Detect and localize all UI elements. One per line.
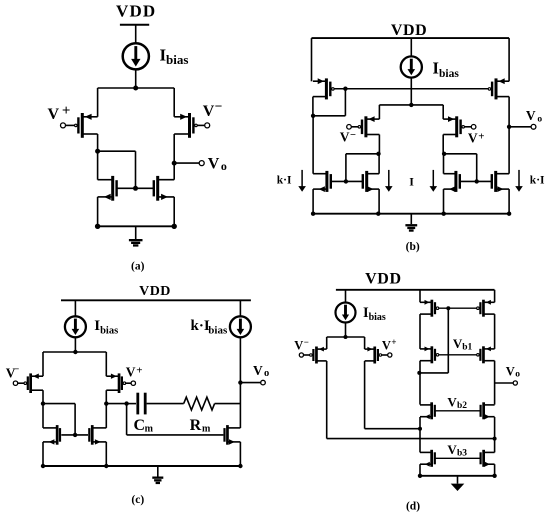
svg-text:V: V <box>468 130 478 145</box>
svg-text:(d): (d) <box>406 501 420 513</box>
svg-text:bias: bias <box>100 325 118 336</box>
svg-text:−: − <box>215 99 223 114</box>
svg-text:−: − <box>14 365 19 375</box>
svg-text:V: V <box>447 442 457 457</box>
svg-text:I: I <box>433 59 439 78</box>
svg-text:+: + <box>478 131 484 143</box>
svg-text:b3: b3 <box>457 449 467 459</box>
svg-text:I: I <box>409 174 414 188</box>
svg-text:b1: b1 <box>462 343 472 353</box>
svg-text:k·I: k·I <box>277 175 292 187</box>
svg-text:bias: bias <box>166 52 188 67</box>
svg-text:VDD: VDD <box>116 2 156 21</box>
svg-text:V: V <box>294 339 303 353</box>
svg-text:k·I: k·I <box>191 318 210 334</box>
svg-text:o: o <box>515 370 520 380</box>
svg-text:(b): (b) <box>406 241 420 253</box>
svg-text:+: + <box>391 337 396 347</box>
svg-text:V: V <box>447 394 457 409</box>
svg-text:bias: bias <box>439 68 459 80</box>
svg-text:VDD: VDD <box>365 271 401 288</box>
svg-text:(c): (c) <box>131 494 144 506</box>
svg-text:V: V <box>203 103 215 120</box>
svg-text:m: m <box>145 423 154 434</box>
svg-text:k·I: k·I <box>530 175 545 187</box>
svg-text:b2: b2 <box>457 401 467 411</box>
svg-text:o: o <box>537 114 542 124</box>
svg-text:V: V <box>382 338 391 352</box>
svg-text:V: V <box>208 156 220 173</box>
svg-text:V: V <box>340 129 350 144</box>
svg-text:VDD: VDD <box>139 284 171 299</box>
svg-text:−: − <box>304 337 309 347</box>
svg-text:+: + <box>136 365 142 377</box>
svg-text:V: V <box>126 365 136 380</box>
svg-text:(a): (a) <box>131 261 145 273</box>
svg-text:V: V <box>526 108 536 123</box>
svg-text:o: o <box>264 368 269 379</box>
svg-text:m: m <box>202 423 211 434</box>
svg-text:bias: bias <box>369 312 386 323</box>
svg-text:+: + <box>62 103 71 119</box>
svg-text:V: V <box>48 106 60 123</box>
svg-text:C: C <box>134 417 146 434</box>
svg-text:bias: bias <box>208 325 228 337</box>
svg-text:−: − <box>350 130 356 141</box>
svg-text:o: o <box>221 159 227 173</box>
svg-text:V: V <box>506 365 515 379</box>
svg-text:VDD: VDD <box>391 22 427 39</box>
svg-text:R: R <box>190 417 202 434</box>
svg-text:V: V <box>253 363 263 378</box>
